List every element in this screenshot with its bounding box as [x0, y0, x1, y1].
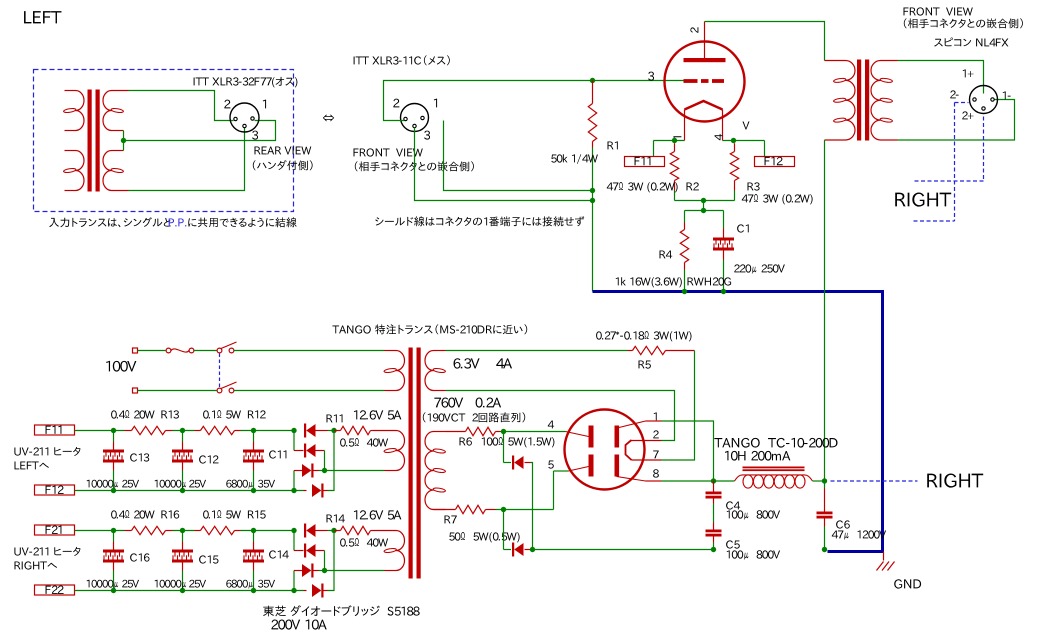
fuse terminal F22 — [35, 585, 75, 595]
wire AC2 to winding — [325, 570, 385, 572]
label J2 view — [904, 7, 973, 15]
capacitor C6 — [817, 481, 833, 550]
node cap a — [111, 428, 116, 433]
label U2 pin 7 — [653, 451, 659, 459]
wire R5 to U2 pin 7 — [662, 351, 695, 461]
wire J3 pin2 to grid bus — [384, 81, 684, 121]
label J3 pin 2 — [393, 99, 399, 108]
label J2 pin 1+ — [963, 69, 974, 77]
node bridge DC+ — [291, 528, 296, 533]
fuse terminal F21 — [35, 525, 75, 535]
label LEFT — [24, 11, 61, 23]
label U1 grid pin 3 — [648, 72, 654, 81]
connector J3 pin 3 — [413, 124, 416, 127]
label J2 view 2 — [904, 18, 1023, 28]
wire J3 pin3 down — [415, 128, 591, 201]
node cap c — [251, 428, 256, 433]
diode D21 — [304, 524, 334, 538]
resistor R14 (0.5 ohm) — [334, 526, 374, 534]
label T3 type — [332, 324, 527, 334]
capacitor C1 — [713, 211, 734, 292]
label J3 pin 3 — [424, 131, 430, 140]
label RIGHT (speaker) — [895, 193, 951, 207]
label R7 value — [449, 532, 519, 543]
fuse F1 (mains) — [166, 348, 194, 353]
wire U1 pin4 node — [723, 141, 765, 157]
node cap c — [251, 528, 256, 533]
label R14 — [327, 514, 345, 522]
switch SW1a — [217, 342, 236, 353]
wire shield drain (not to pin 1) — [444, 121, 591, 191]
wire U2 pin8 to output node — [662, 480, 714, 482]
label R15 row — [203, 510, 266, 519]
transformer T1 core — [88, 90, 100, 192]
wire AC hot to fuse — [138, 350, 166, 352]
wire B+ to right channel (dashed) — [831, 480, 918, 482]
label R5 — [639, 361, 651, 369]
label L1 value — [725, 451, 790, 461]
connector J1 pin 3 — [243, 124, 246, 127]
label U2 pin 5 — [548, 461, 554, 469]
choke L1 winding — [735, 475, 813, 488]
capacitor C12 — [172, 431, 193, 491]
label diode bridge rating — [271, 620, 326, 630]
tube U1 UV-211 envelope — [665, 42, 745, 122]
label R11 value — [340, 438, 388, 447]
label R6 value — [482, 437, 503, 446]
connector J2 pin 1- — [991, 98, 994, 101]
wire T2 secondary top to speakon 1+ — [898, 61, 984, 94]
label U2 pin 2 — [653, 430, 659, 438]
resistor R3 — [730, 143, 738, 200]
diode D5 — [504, 432, 533, 550]
connector J1 pin 1 — [251, 117, 254, 120]
wire F22 rail — [75, 590, 304, 592]
resistor R12 (0.1 ohm) — [195, 426, 241, 434]
label R11 — [327, 414, 343, 422]
label J3 type — [354, 55, 450, 65]
wire B+ to choke — [714, 480, 735, 482]
wire to bias network — [685, 201, 724, 211]
label J1 pin 2 — [224, 100, 230, 109]
label C11 — [269, 450, 286, 458]
tube U1 plate — [684, 22, 726, 63]
resistor R5 — [628, 346, 695, 354]
label R14 value — [340, 538, 388, 547]
note shield wire — [375, 216, 584, 226]
node pin5 node — [501, 507, 506, 512]
label U1 pin 1 — [673, 136, 681, 139]
label heater right 2 — [15, 561, 58, 569]
label C13 — [130, 453, 149, 461]
mating symbol — [323, 115, 334, 122]
resistor R16 (0.4 ohm) — [125, 526, 173, 534]
label C1 — [737, 224, 749, 232]
diode D6 — [504, 510, 533, 557]
node — [180, 488, 185, 493]
fuse F11 (plate circuit) — [625, 157, 665, 167]
connector J3 XLR female body — [401, 104, 429, 132]
label C4 — [726, 501, 740, 509]
fuse F12 (plate circuit) — [755, 157, 795, 167]
node bridge AC1 — [331, 528, 336, 533]
node bias top — [701, 208, 706, 213]
connector J3 pin 2 — [404, 117, 407, 120]
node — [180, 588, 185, 593]
diode D14 — [304, 431, 335, 498]
wire switch to T3 primary bottom — [234, 390, 385, 392]
transformer T3 6.3V winding — [425, 351, 446, 391]
transformer T1 secondary winding upper — [103, 91, 129, 131]
node pin4 node — [501, 429, 506, 434]
wire F12 rail — [75, 490, 304, 492]
wire U1 pin1 node — [654, 141, 685, 157]
label U2 pin 8 — [653, 469, 659, 477]
label C14 — [269, 550, 289, 558]
label J3 pin 1 — [434, 99, 437, 108]
label J1 type — [194, 77, 298, 88]
node bridge DC- — [291, 488, 296, 493]
node shield to R1 bottom — [590, 188, 595, 193]
label R16 row — [111, 510, 179, 519]
label J1 pin 3 — [252, 131, 258, 140]
tube U2 pin 8 lead — [617, 477, 662, 482]
wire to right channel speaker (dashed) — [914, 103, 984, 222]
resistor R6 — [446, 427, 501, 435]
label R3 — [748, 182, 760, 190]
switch SW1b — [217, 382, 236, 393]
label J1 pin 1 — [263, 100, 266, 109]
resistor R4 — [680, 211, 688, 292]
label R13 row — [111, 410, 179, 419]
label measurement point V — [743, 122, 750, 130]
node cathode junction — [701, 198, 706, 203]
label R1 value — [551, 154, 598, 164]
diode D23 — [294, 564, 325, 591]
capacitor C13 — [103, 431, 124, 491]
resistor R1 — [588, 81, 596, 292]
terminal AC neutral — [133, 388, 138, 393]
node C5 to rail — [711, 547, 716, 552]
transformer T3 12.6V winding (right ch) — [374, 531, 405, 571]
wire F21 to filter — [75, 530, 125, 532]
label C12 — [199, 455, 218, 463]
wire — [173, 430, 195, 432]
transformer T3 primary winding — [384, 351, 405, 391]
label R6 — [460, 437, 472, 445]
wire — [241, 530, 297, 532]
wire — [173, 530, 195, 532]
transformer T2 primary winding — [825, 61, 856, 141]
tube U2 rectifier envelope — [565, 410, 645, 490]
label U2 pin 4 — [548, 421, 554, 429]
diode D24 — [304, 531, 335, 598]
resistor R11 (0.5 ohm) — [334, 426, 374, 434]
label diode bridge type — [263, 605, 420, 616]
node bridge AC2 — [322, 468, 327, 473]
label 760V winding 2 — [423, 412, 525, 422]
capacitor C16 — [103, 531, 124, 591]
connector J2 pin 2- — [973, 98, 976, 101]
label R5 value — [596, 331, 691, 342]
label J3 view 2 — [355, 161, 474, 171]
label L1 type — [714, 438, 837, 448]
connector J1 XLR male body — [230, 103, 259, 132]
label R4 — [660, 251, 673, 259]
label cap values row — [87, 580, 275, 589]
transformer T1 primary winding lower — [63, 151, 84, 191]
node center tap junction — [121, 138, 126, 143]
capacitor C4 — [706, 481, 722, 530]
resistor R15 (0.1 ohm) — [195, 526, 241, 534]
label C15 — [199, 555, 218, 563]
label 6.3V winding — [454, 358, 513, 368]
tube U2 pin 1 lead — [619, 421, 662, 428]
dashed enclosure (left channel input wiring) — [34, 70, 294, 212]
wire R6 to U2 pin 4 — [501, 432, 589, 437]
label C6 value — [832, 530, 886, 539]
wire — [241, 430, 297, 432]
terminal AC hot — [133, 348, 138, 353]
label J1 view 2 — [253, 160, 313, 170]
node pin4 junction — [731, 138, 736, 143]
capacitor C11 — [243, 431, 264, 491]
resistor R7 — [434, 505, 496, 513]
label heater right — [14, 547, 80, 556]
wire fuse to switch — [194, 350, 217, 352]
node — [111, 588, 116, 593]
wire choke to filter — [813, 480, 825, 482]
wire F11 to filter — [75, 430, 125, 432]
label R3 value — [742, 194, 813, 205]
label cap values row — [87, 480, 275, 489]
label C1 value — [734, 264, 785, 273]
transformer T3 12.6V winding (left ch) — [374, 431, 405, 471]
node grid bus / R1 top — [590, 78, 595, 83]
label J2 pin 2- — [950, 90, 958, 98]
label C16 — [130, 553, 149, 561]
resistor R13 (0.4 ohm) — [125, 426, 173, 434]
label 760V winding — [434, 398, 501, 408]
node — [251, 488, 256, 493]
connector J2 pin 2+ — [982, 107, 985, 110]
wire R2 R3 junction — [675, 200, 735, 202]
label J2 pin 1- — [1003, 91, 1011, 99]
wire AC2 to winding — [325, 470, 385, 472]
ground — [877, 552, 895, 571]
tube U2 pin 7 lead — [632, 459, 662, 461]
transformer T2 core — [857, 60, 869, 141]
diode D12 — [294, 431, 325, 471]
connector J3 pin 1 — [421, 116, 424, 119]
wire R7 to U2 pin 5 — [496, 467, 589, 510]
node bridge AC1 — [331, 428, 336, 433]
transformer T3 760V winding — [425, 432, 446, 510]
node cap b — [180, 528, 185, 533]
tube U2 pin 2 lead — [632, 440, 662, 442]
label 100V — [106, 361, 136, 372]
label C5 value — [727, 550, 780, 559]
transformer T1 primary winding upper — [63, 91, 84, 131]
label R2 value — [607, 182, 678, 193]
resistor R2 — [670, 143, 678, 200]
wire T1 center tap — [123, 131, 125, 151]
node — [251, 588, 256, 593]
label U1 pin 4 — [715, 134, 723, 140]
wire T1 secondary bottom to XLR male pin 3 — [129, 128, 245, 191]
node choke output — [822, 478, 827, 483]
transformer T3 core — [409, 348, 421, 579]
node bridge AC2 — [322, 568, 327, 573]
note input transformer wiring — [49, 217, 296, 227]
transformer T1 secondary winding lower — [103, 151, 129, 191]
capacitor C5 — [706, 530, 722, 550]
label J3 view — [354, 148, 423, 156]
label J1 view — [255, 147, 312, 155]
label GND — [894, 579, 921, 588]
capacitor C14 — [243, 531, 264, 591]
label J2 type — [934, 38, 1008, 47]
wire 6.3V top to R5 — [446, 350, 628, 352]
node pin1 junction — [672, 138, 677, 143]
connector J2 speakon body — [970, 86, 998, 114]
label heater left 2 — [15, 462, 49, 470]
label R1 — [608, 141, 618, 149]
node bias rail — [530, 547, 535, 552]
wire U1 plate to output transformer — [705, 22, 825, 61]
capacitor C15 — [172, 531, 193, 591]
tube U2 plate lower-right — [615, 455, 620, 477]
node C1 to bus — [721, 289, 726, 294]
wire T2 secondary bottom to speakon 1- — [898, 100, 1015, 141]
fuse terminal F11 — [35, 425, 75, 435]
node B+ output — [711, 478, 716, 483]
wire 6.3V bottom to U2 pin 2 — [446, 391, 675, 441]
label U2 pin 1 — [654, 412, 657, 420]
label C6 — [836, 520, 850, 528]
label R2 — [687, 182, 699, 190]
wire center tap to XLR male pin 1 — [124, 121, 276, 141]
tube U1 grid — [684, 79, 725, 83]
node cap b — [180, 428, 185, 433]
diode D11 — [304, 424, 334, 438]
wire U2 pin1 to output node — [662, 421, 714, 481]
node pin3 to R1 bottom — [590, 198, 595, 203]
tube U2 filament chevron — [626, 440, 632, 460]
label R4 value — [616, 277, 682, 287]
wire T1 secondary top to XLR male pin 2 — [129, 91, 234, 121]
tube U2 plate lower-left — [589, 455, 594, 477]
label RIGHT (B+) — [927, 474, 983, 488]
label R6 power — [508, 437, 554, 447]
node bridge DC- — [291, 588, 296, 593]
tube U2 plate upper-right — [615, 426, 620, 448]
label U1 pin 2 — [690, 27, 698, 33]
label R12 row — [203, 410, 266, 419]
diode D22 — [294, 531, 325, 571]
wire common bus (blue) — [593, 292, 883, 552]
connector J1 pin 2 — [234, 117, 237, 120]
node cap a — [111, 528, 116, 533]
label 12.6V R — [354, 510, 402, 519]
label 12.6V L — [354, 410, 402, 419]
label C4 value — [727, 510, 780, 519]
label R7 — [445, 516, 457, 524]
label C5 — [726, 540, 740, 548]
transformer T2 secondary winding — [871, 61, 898, 141]
node C6 to rail — [822, 547, 827, 552]
wire AC neutral to switch — [138, 390, 218, 392]
wire bias rail — [533, 549, 714, 551]
tube U2 plate upper-left — [589, 426, 594, 448]
choke L1 core — [743, 467, 805, 472]
tube U1 filament — [685, 101, 723, 141]
fuse terminal F12 — [35, 485, 75, 495]
wire switch to T3 primary top — [234, 350, 385, 352]
diode D13 — [294, 464, 325, 491]
node — [111, 488, 116, 493]
label heater left — [14, 447, 80, 456]
label RWH20G — [688, 277, 732, 285]
label J2 pin 2+ — [962, 111, 973, 119]
wire T2 primary bottom to B+ — [824, 140, 826, 481]
node R4 to bus — [682, 289, 687, 294]
switch gang link (dashed) — [219, 354, 221, 388]
node bridge DC+ — [291, 428, 296, 433]
